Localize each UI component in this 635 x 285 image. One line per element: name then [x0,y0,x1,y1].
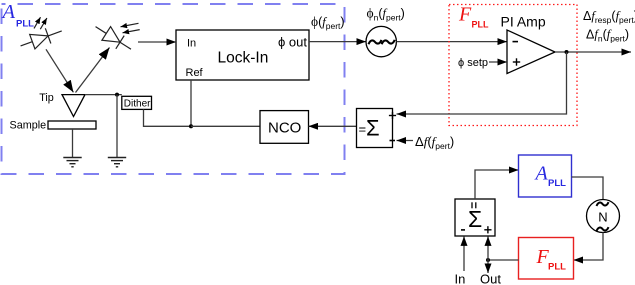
svg-text:N: N [598,210,607,225]
noise source N [587,200,620,233]
wire Lock-In out to noise adder [309,41,366,43]
wire junction to Out [487,260,489,273]
wire PI amp output [555,51,631,53]
wire N source to F_PLL [574,233,604,261]
A_PLL block [519,155,572,197]
op-amp plus pin [513,58,520,65]
svg-text:Σ: Σ [366,116,380,141]
reflected beam wire to photodiode [76,48,110,93]
svg-text:Δfresp(fpert),: Δfresp(fpert), [583,9,635,25]
svg-text:PLL: PLL [548,178,566,189]
NCO box [260,111,309,144]
wire F_PLL to out junction [488,259,519,261]
Lock-In box [176,30,309,80]
op-amp U1 PI amp [507,30,555,74]
photodiode D2 [91,20,135,56]
wire A_PLL to N source [572,177,604,200]
photodiode incident arrows [121,23,140,33]
wire tip to dither [85,94,122,96]
wire In to sigma2 minus [463,236,465,271]
junction output feedback [565,50,569,54]
dashed box A_PLL section [2,4,345,174]
tip cantilever [62,95,85,117]
svg-text:Δfn(fpert): Δfn(fpert) [586,28,629,44]
noise adder circle [366,26,396,56]
wire dither to NCO line [144,109,192,126]
wire setp to plus input [489,61,507,63]
svg-text:In: In [187,37,196,49]
junction tip wire [115,93,119,97]
svg-text:ϕn(fpert): ϕn(fpert) [367,6,405,23]
svg-text:ϕ out: ϕ out [278,34,307,49]
svg-text:ϕ setp: ϕ setp [458,57,488,69]
svg-text:PLL: PLL [548,262,566,273]
ground under dither wire [108,158,126,167]
svg-text:=: = [359,122,367,137]
sample plate [48,121,96,129]
svg-text:Out: Out [480,272,501,285]
svg-text:Sample: Sample [10,119,47,131]
svg-text:ϕ(fpert): ϕ(fpert) [311,14,345,31]
sigma block [357,109,393,148]
wire photodiode to Lock-In In [138,41,176,43]
wire junction to sigma2 plus [487,236,489,260]
svg-text:PI Amp: PI Amp [501,14,546,30]
label F_PLL [458,4,489,30]
svg-text:Σ: Σ [468,206,482,232]
svg-text:Lock-In: Lock-In [218,50,269,67]
wire sample to ground [72,129,74,158]
laser beam wire to tip [46,49,73,92]
wire sigma to NCO [309,125,357,127]
svg-text:PLL: PLL [16,18,34,29]
svg-text:A: A [534,163,549,185]
label A_PLL [1,1,35,29]
sigma minus pin [390,140,396,142]
op-amp minus pin [513,41,519,43]
wire Ref to NCO line [190,80,192,126]
feedback wire to sigma plus [397,52,567,114]
svg-text:A: A [1,1,16,23]
wire delta f to sigma minus [397,140,414,142]
wire junction to NCO [191,125,260,127]
laser emission arrows [34,17,47,29]
F_PLL block [519,238,574,280]
svg-text:F: F [458,4,472,26]
svg-text:Dither: Dither [124,98,151,109]
svg-text:In: In [455,272,466,285]
junction ref dither nco [189,124,193,128]
svg-text:Tip: Tip [39,92,54,104]
svg-text:Ref: Ref [186,67,204,79]
sigma2 block [455,199,495,236]
sigma plus pin [389,112,396,119]
laser diode D1 [18,23,65,53]
svg-text:Δf(fpert): Δf(fpert) [415,134,454,151]
svg-text:NCO: NCO [268,120,301,137]
sigma2 minus pin [461,229,465,231]
svg-text:PLL: PLL [472,20,490,30]
junction out [486,258,490,262]
ground under sample [63,158,81,167]
wire sigma2 to A_PLL [475,170,519,199]
wire junction to ground [116,95,118,158]
dither box [122,96,152,109]
wire noise adder to PI amp minus [396,41,507,43]
dotted box F_PLL section [449,5,577,126]
sigma2 plus pin [484,226,491,233]
